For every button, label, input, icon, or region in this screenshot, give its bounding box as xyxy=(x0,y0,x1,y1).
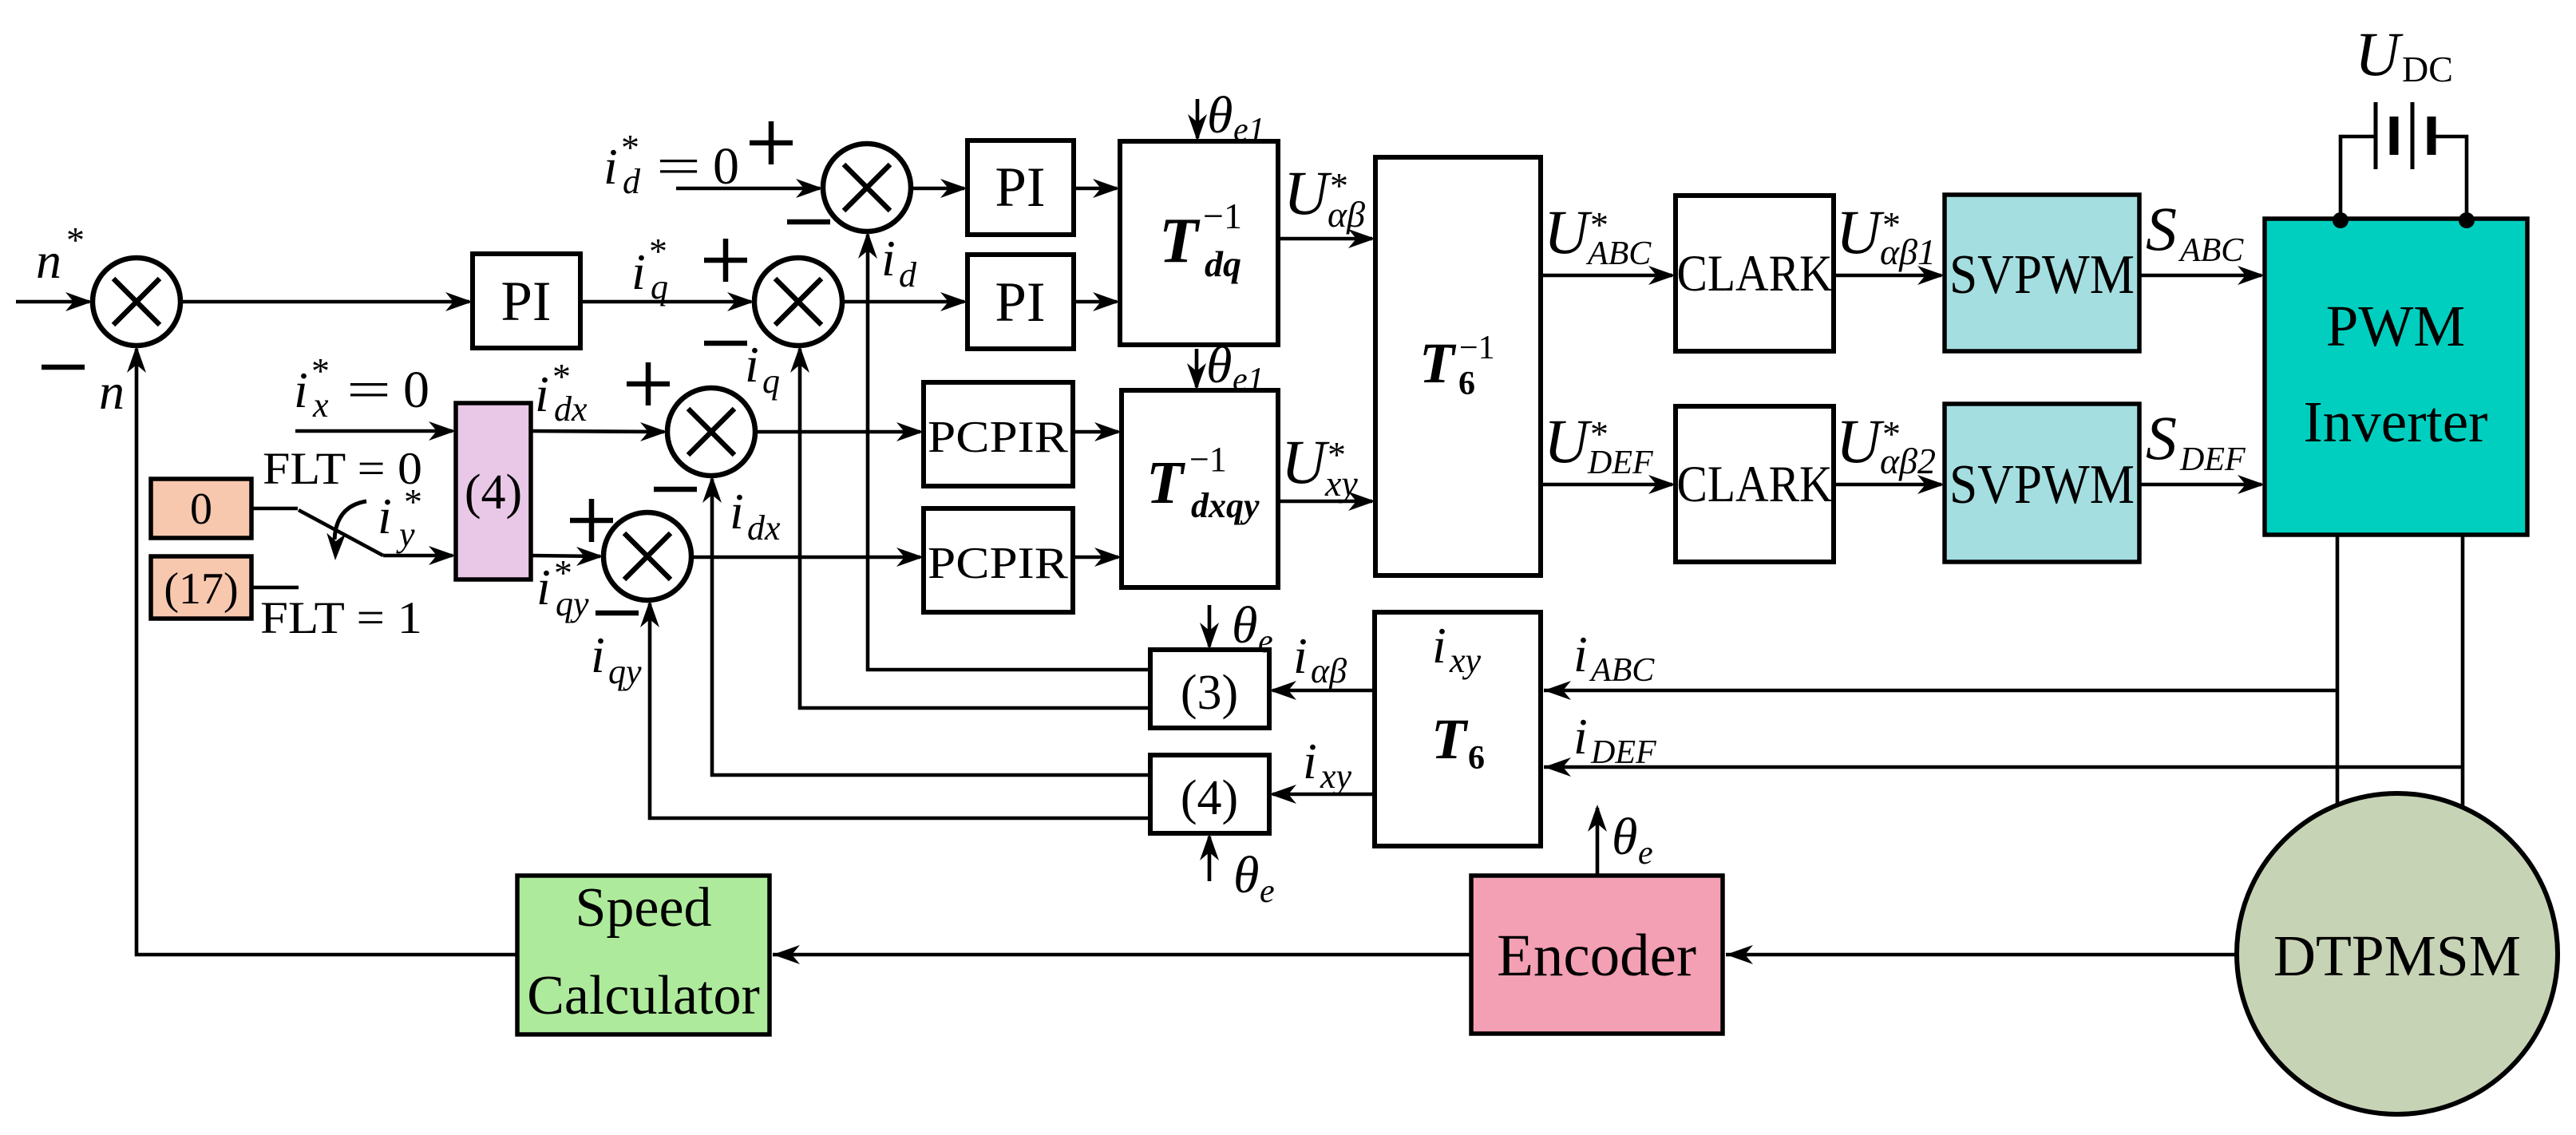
svg-text:i: i xyxy=(1573,626,1588,682)
wire id feedback xyxy=(868,235,1150,670)
svg-text:i: i xyxy=(378,488,392,544)
wire iq feedback xyxy=(800,349,1150,708)
PWM inverter block xyxy=(2265,219,2527,535)
svg-text:xy: xy xyxy=(1324,463,1358,504)
svg-text:CLARK: CLARK xyxy=(1677,456,1833,513)
wire id*=0 input xyxy=(676,187,820,191)
svg-text:6: 6 xyxy=(1468,740,1485,777)
battery plate long left xyxy=(2374,102,2378,169)
CLARK transform 1 xyxy=(1676,196,1834,351)
svg-text:d: d xyxy=(623,162,641,201)
plus sign at S5 xyxy=(570,518,613,524)
battery lead left xyxy=(2341,136,2376,217)
svg-text:θ: θ xyxy=(1612,808,1637,866)
PI speed controller xyxy=(473,254,580,348)
minus sign at S1 xyxy=(42,365,85,370)
zero source block xyxy=(151,479,251,538)
wire PI q to Tdq xyxy=(1074,300,1117,304)
theta_e arrow into eq3 xyxy=(1208,605,1212,647)
SVPWM modulator 1 xyxy=(1945,195,2139,351)
svg-text:6: 6 xyxy=(1458,366,1475,402)
svg-text:U: U xyxy=(1836,406,1885,476)
wire idx feedback xyxy=(712,479,1150,775)
svg-text:i: i xyxy=(1573,708,1588,765)
plus sign at S2 xyxy=(704,258,747,263)
SVPWM modulator 2 xyxy=(1945,404,2139,562)
svg-text:dxqy: dxqy xyxy=(1191,486,1260,525)
svg-text:Speed: Speed xyxy=(575,877,711,939)
PCPIR y controller xyxy=(924,508,1073,612)
block T6 inverse xyxy=(1375,157,1541,575)
svg-text:DEF: DEF xyxy=(1587,445,1653,481)
Speed Calculator block xyxy=(517,876,770,1034)
svg-text:T: T xyxy=(1159,206,1201,276)
svg-text:e1: e1 xyxy=(1233,112,1265,148)
svg-text:i: i xyxy=(591,627,605,683)
svg-text:i: i xyxy=(1303,733,1317,789)
svg-text:i: i xyxy=(631,243,646,300)
eq17 source block xyxy=(151,556,251,619)
svg-text:qy: qy xyxy=(608,652,642,691)
svg-text:e: e xyxy=(1258,623,1273,660)
svg-text:n: n xyxy=(99,363,125,420)
wire T6inv to CLARK2 xyxy=(1541,483,1672,487)
minus sign below S5 xyxy=(596,611,639,616)
theta_e1 arrow into Tdxqy xyxy=(1195,349,1199,387)
wire from zero block xyxy=(251,507,298,511)
svg-text:(4): (4) xyxy=(1181,771,1238,825)
wire S2 to PI q xyxy=(842,300,964,304)
svg-text:θ: θ xyxy=(1207,86,1233,144)
wire S1 to PI speed xyxy=(180,300,469,304)
svg-text:Encoder: Encoder xyxy=(1497,923,1696,989)
svg-text:−1: −1 xyxy=(1189,440,1227,479)
svg-text:Calculator: Calculator xyxy=(527,965,760,1026)
svg-text:=: = xyxy=(656,137,701,196)
svg-text:Inverter: Inverter xyxy=(2303,390,2487,454)
svg-text:dq: dq xyxy=(1205,243,1241,284)
block T6 current transform xyxy=(1375,612,1541,846)
wire PI to S2 (iq*) xyxy=(580,300,751,304)
wire CLARK1 to SVPWM1 xyxy=(1834,274,1941,278)
wire ix*=0 input xyxy=(295,429,453,433)
svg-text:i: i xyxy=(1293,627,1308,684)
svg-text:T: T xyxy=(1431,707,1469,771)
summing junction S3 (id) xyxy=(823,144,911,231)
svg-text:αβ1: αβ1 xyxy=(1880,231,1936,272)
svg-text:T: T xyxy=(1419,331,1457,395)
svg-text:qy: qy xyxy=(556,584,589,623)
svg-text:i: i xyxy=(536,559,551,615)
svg-text:FLT = 0: FLT = 0 xyxy=(263,444,422,494)
svg-text:−1: −1 xyxy=(1203,196,1242,236)
svg-text:U: U xyxy=(1544,406,1593,476)
wire PCPIR1 to Tdxqy xyxy=(1073,430,1118,434)
theta_e1 arrow into Tdq xyxy=(1196,99,1200,138)
svg-text:i: i xyxy=(881,230,896,287)
svg-text:SVPWM: SVPWM xyxy=(1949,454,2135,516)
svg-text:i: i xyxy=(1432,617,1446,674)
reference block eq4 purple xyxy=(456,403,531,579)
svg-text:U: U xyxy=(2355,19,2404,89)
theta_e arrow into eq4 xyxy=(1208,836,1212,881)
svg-text:dx: dx xyxy=(554,390,588,429)
wire purple to S5 xyxy=(531,556,600,556)
svg-text:DTPMSM: DTPMSM xyxy=(2273,923,2521,988)
svg-text:=: = xyxy=(346,361,391,419)
minus sign below S2 xyxy=(704,341,747,346)
minus sign below S4 xyxy=(654,487,697,492)
wire switch to purple xyxy=(383,554,453,558)
wire PI d to Tdq xyxy=(1074,187,1117,191)
svg-text:(17): (17) xyxy=(164,564,238,614)
svg-text:U: U xyxy=(1836,197,1885,267)
svg-text:T: T xyxy=(1146,449,1185,516)
svg-text:PCPIR: PCPIR xyxy=(928,539,1069,588)
wire S3 to PI d xyxy=(911,187,964,191)
wire iqy feedback xyxy=(650,603,1150,818)
svg-text:x: x xyxy=(312,386,329,425)
svg-text:αβ: αβ xyxy=(1311,651,1347,690)
svg-text:xy: xy xyxy=(1449,641,1482,680)
svg-text:DEF: DEF xyxy=(1590,734,1656,771)
svg-text:d: d xyxy=(899,255,917,295)
svg-text:*: * xyxy=(66,219,85,260)
svg-text:(3): (3) xyxy=(1181,666,1238,720)
Encoder block xyxy=(1471,876,1723,1034)
svg-text:U: U xyxy=(1284,158,1332,227)
wire motor to encoder xyxy=(1726,953,2237,957)
svg-text:DC: DC xyxy=(2402,49,2453,89)
battery lead right xyxy=(2432,136,2467,217)
summing junction S5 (iqy) xyxy=(603,512,691,600)
svg-text:y: y xyxy=(396,515,415,554)
svg-text:ABC: ABC xyxy=(2178,232,2244,269)
wire CLARK2 to SVPWM2 xyxy=(1834,483,1941,487)
wire n* input xyxy=(16,300,89,304)
block Tdxqy inverse xyxy=(1122,390,1278,587)
switch blade xyxy=(299,510,383,556)
svg-text:e: e xyxy=(1638,835,1653,872)
svg-text:S: S xyxy=(2146,194,2177,263)
svg-text:0: 0 xyxy=(403,361,429,419)
wire T6 to eq3 (i_alphabeta) xyxy=(1272,689,1375,693)
svg-text:U: U xyxy=(1281,427,1330,496)
svg-text:θ: θ xyxy=(1233,846,1259,904)
svg-text:n: n xyxy=(36,232,61,289)
svg-text:PI: PI xyxy=(995,271,1045,334)
svg-text:DEF: DEF xyxy=(2179,441,2246,478)
summing junction S2 (iq) xyxy=(754,258,842,346)
wire iABC feedback xyxy=(1544,689,2337,693)
svg-text:αβ2: αβ2 xyxy=(1880,441,1936,481)
block Tdq inverse xyxy=(1120,141,1278,345)
block eq4 xyxy=(1150,755,1269,833)
PI q-axis controller xyxy=(967,255,1074,349)
svg-text:S: S xyxy=(2146,403,2177,473)
junction dot left xyxy=(2333,212,2348,228)
svg-text:xy: xy xyxy=(1320,757,1352,796)
wire iDEF feedback xyxy=(1544,765,2463,769)
wire from eq17 block xyxy=(251,586,299,590)
svg-text:U: U xyxy=(1544,197,1593,267)
svg-text:αβ: αβ xyxy=(1328,194,1365,235)
svg-text:i: i xyxy=(294,362,308,418)
wire purple to S4 xyxy=(531,431,664,432)
wire PCPIR2 to Tdxqy xyxy=(1073,556,1118,560)
svg-text:i: i xyxy=(745,336,759,393)
wire Tdq to T6inv xyxy=(1278,237,1372,241)
svg-text:q: q xyxy=(762,362,780,401)
plus sign at S4 xyxy=(627,382,670,387)
wire PWM to motor right xyxy=(2461,535,2465,809)
battery plate short right xyxy=(2428,117,2436,155)
svg-text:(4): (4) xyxy=(465,465,522,520)
battery plate short left xyxy=(2390,117,2399,155)
svg-text:PWM: PWM xyxy=(2326,294,2465,358)
wire speedcalc to S1 xyxy=(137,349,517,955)
svg-text:ABC: ABC xyxy=(1585,235,1652,272)
PCPIR x controller xyxy=(924,382,1073,486)
wire SVPWM2 to PWM xyxy=(2139,483,2261,487)
svg-text:PI: PI xyxy=(501,271,551,333)
wire encoder to speedcalc xyxy=(773,953,1471,957)
svg-text:FLT = 1: FLT = 1 xyxy=(260,593,422,643)
switch action arrow xyxy=(334,501,366,540)
svg-text:SVPWM: SVPWM xyxy=(1949,244,2135,306)
DTPMSM motor xyxy=(2237,793,2558,1114)
wire T6 to eq4 (i_xy) xyxy=(1272,793,1375,797)
svg-text:−1: −1 xyxy=(1459,330,1495,366)
svg-text:0: 0 xyxy=(190,484,212,534)
svg-text:q: q xyxy=(651,267,668,306)
svg-text:i: i xyxy=(730,483,744,540)
wire PWM to motor left xyxy=(2336,535,2340,808)
svg-text:ABC: ABC xyxy=(1589,652,1655,689)
wire S4 to PCPIR1 xyxy=(755,430,920,434)
wire T6inv to CLARK1 xyxy=(1541,274,1672,278)
wire SVPWM1 to PWM xyxy=(2139,274,2261,278)
summing junction S1 (n* - n) xyxy=(93,258,180,346)
wire S5 to PCPIR2 xyxy=(691,556,920,560)
junction dot right xyxy=(2459,212,2475,228)
wire Tdxqy to T6inv xyxy=(1278,500,1372,504)
svg-text:θ: θ xyxy=(1206,336,1232,394)
PI d-axis controller xyxy=(967,140,1074,235)
plus sign at S3 xyxy=(750,140,793,146)
summing junction S4 (idx) xyxy=(667,388,755,476)
minus sign below S3 xyxy=(787,219,830,225)
svg-text:e: e xyxy=(1260,873,1275,910)
svg-text:dx: dx xyxy=(747,508,781,548)
svg-text:PI: PI xyxy=(995,156,1045,219)
CLARK transform 2 xyxy=(1676,406,1834,562)
svg-text:i: i xyxy=(603,138,618,195)
svg-text:0: 0 xyxy=(713,137,739,196)
svg-text:PCPIR: PCPIR xyxy=(928,413,1069,462)
svg-text:*: * xyxy=(649,231,667,271)
theta_e arrow from encoder xyxy=(1596,808,1600,876)
battery plate long right xyxy=(2411,102,2415,169)
svg-text:i: i xyxy=(535,366,549,422)
block eq3 xyxy=(1150,650,1269,728)
svg-text:CLARK: CLARK xyxy=(1677,245,1833,303)
svg-text:θ: θ xyxy=(1232,596,1257,655)
